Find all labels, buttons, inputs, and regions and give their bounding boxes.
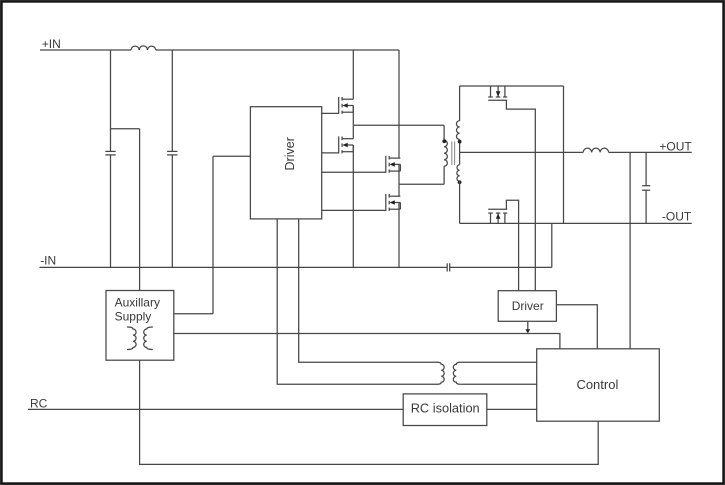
T1 secondary chord (459, 140, 461, 165)
wire Q4 gate (322, 209, 386, 211)
wire aux long rail (174, 334, 560, 349)
wire U2 right to control (556, 305, 597, 349)
wire -IN to -OUT link (551, 223, 553, 267)
svg-text:Driver: Driver (283, 137, 297, 170)
wire right leg to +IN (398, 50, 400, 158)
capacitor C1 (105, 151, 115, 155)
op-amp U1 Driver block (250, 107, 321, 219)
transformer T2 secondary winding (453, 362, 460, 384)
wire Q4 source to -IN (398, 203, 400, 268)
block U4 RC isolation (403, 394, 487, 426)
T1 secondary phase dot upper (458, 140, 462, 144)
transformer T1 secondary winding lower (457, 165, 460, 182)
svg-text:Supply: Supply (115, 310, 152, 324)
transformer T1 secondary winding upper (456, 121, 459, 140)
svg-text:Auxillary: Auxillary (115, 296, 160, 310)
wire +IN rail right (156, 49, 399, 51)
svg-text:-IN: -IN (40, 254, 56, 268)
wire aux right to U1 (174, 313, 213, 315)
wire Q5 gate step (506, 100, 535, 290)
wire vertical x213 (212, 156, 214, 313)
svg-text:Driver: Driver (512, 299, 544, 313)
node A bridge left output (353, 124, 444, 126)
wire Q1 gate (322, 112, 339, 114)
wire -IN rail left (40, 266, 447, 268)
transformer T2 primary winding (437, 362, 444, 384)
wire output cap top (645, 152, 647, 185)
wire center tap to inductor (460, 151, 584, 153)
wire -IN rail right (450, 266, 552, 268)
transistor Q5 sync rectifier (488, 86, 507, 100)
wire T2 secondary bottom to control (460, 383, 536, 385)
wire Q2 gate (322, 152, 339, 154)
svg-text:+IN: +IN (42, 37, 61, 51)
wire Q5 side down (563, 86, 565, 223)
wire Q6 gate step (506, 200, 518, 291)
transistor Q1 (339, 97, 354, 114)
wire output cap bottom (645, 190, 647, 223)
wire Q2 drain (352, 125, 354, 138)
wire secondary top rail (460, 85, 564, 87)
T1 secondary phase dot lower (458, 180, 462, 184)
wire +IN rail left (40, 49, 131, 51)
wire Q3 gate (322, 171, 386, 173)
transistor Q6 sync rectifier (488, 209, 507, 223)
wire U1 left supply (213, 155, 250, 157)
wire -OUT rail (460, 222, 692, 224)
wire T2 secondary top to control (460, 361, 536, 363)
block U3 Control (537, 349, 660, 421)
transformer T1 primary lead bottom (443, 166, 445, 184)
wire Q4 drain (398, 184, 400, 196)
wire input cap C1 leg (110, 50, 112, 267)
wire aux feed elbow (111, 129, 140, 291)
svg-text:+OUT: +OUT (659, 139, 692, 153)
wire RC input line (28, 408, 403, 410)
transformer T1 secondary lead bottom (459, 181, 461, 223)
wire Q2 source to -IN (352, 145, 354, 267)
transformer T1 primary lead top (443, 125, 445, 140)
capacitor C4 output (642, 186, 650, 191)
svg-text:RC isolation: RC isolation (411, 401, 480, 416)
svg-text:Control: Control (576, 377, 618, 392)
capacitor C2 (167, 151, 177, 155)
transformer T1 secondary lead top (459, 86, 461, 121)
transistor Q3 (386, 156, 401, 173)
wire Q3 source to node B (398, 164, 400, 184)
node B bridge right output (399, 183, 444, 185)
wire feedback to control (629, 152, 631, 348)
wire U1 bottom to T2 upper (299, 219, 438, 362)
wire input cap C2 leg (171, 50, 173, 267)
svg-text:RC: RC (30, 397, 48, 411)
inductor L2 output (583, 148, 608, 152)
wire +OUT line (609, 151, 692, 153)
transistor Q4 (386, 194, 401, 211)
wire RC iso to control (487, 408, 537, 410)
transformer T3 aux right winding (144, 327, 153, 350)
capacitor C3 Y-cap (447, 263, 450, 271)
wire U1 bottom to T2 lower (277, 219, 437, 384)
transformer T1 primary winding (444, 140, 447, 166)
svg-text:-OUT: -OUT (662, 209, 692, 223)
block PS1 Auxillary Supply (106, 291, 174, 361)
wire U2 bottom arrow (525, 321, 530, 333)
wire aux bottom loop (140, 360, 599, 464)
transformer T3 aux left winding (127, 327, 136, 350)
wire Q1 drain to +IN (352, 50, 354, 99)
transistor Q2 (339, 136, 354, 153)
inductor L1 (131, 46, 156, 50)
wire Q1 source to node A (352, 106, 354, 126)
transformer T1 core (452, 142, 455, 166)
block U2 Driver secondary (498, 291, 556, 322)
T1 primary phase dot (442, 139, 446, 143)
